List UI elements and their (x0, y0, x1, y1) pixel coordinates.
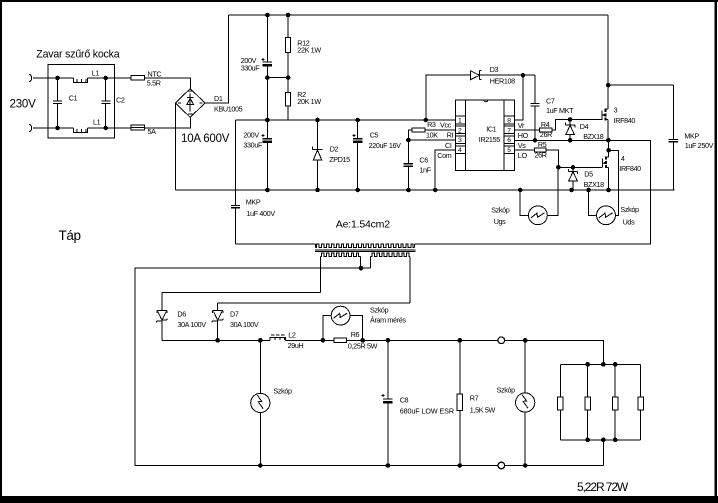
junction: output rail / probe A (258, 338, 263, 343)
svg-text:D3: D3 (490, 65, 499, 74)
svg-text:C7: C7 (546, 96, 555, 105)
inductor L1 (bottom) (73, 117, 100, 132)
scope probe current sense (323, 305, 406, 340)
junction: gate Q4 / probe (556, 165, 561, 170)
svg-text:Szkóp: Szkóp (273, 387, 292, 396)
junction: gate Q3 / D4 (568, 117, 573, 122)
junction: load top (585, 362, 590, 367)
junction: Vs net / D4 (568, 138, 573, 143)
resistor R6 0,25R 5W (334, 330, 378, 350)
svg-text:R7: R7 (470, 394, 479, 403)
wire: winding B to D7 (218, 302, 411, 304)
junction: output rail / probe B (523, 338, 528, 343)
wire: HO to gate Q3 (552, 120, 602, 131)
transformer T1 primary winding (314, 244, 316, 247)
junction: ground rail / Ugs probe (518, 188, 523, 193)
wire: LO to gate Q4 (546, 150, 602, 167)
svg-text:3: 3 (614, 106, 618, 115)
wire: Vs net / half-bridge midpoint (415, 140, 651, 244)
junction: return rail / probe B (523, 463, 528, 468)
connector: mains terminal N (29, 124, 38, 132)
svg-text:29uH: 29uH (288, 341, 304, 350)
svg-text:20K 1W: 20K 1W (297, 97, 321, 106)
capacitor C2 (101, 78, 125, 128)
connector: mains terminal L (29, 74, 38, 82)
svg-text:L2: L2 (288, 330, 296, 339)
svg-text:Uds: Uds (623, 218, 635, 227)
junction: C2 top (103, 76, 108, 81)
junction: ground rail / C chain (265, 188, 270, 193)
svg-text:5: 5 (507, 147, 511, 154)
junction: Vs net / C7 (533, 138, 538, 143)
svg-text:Ugs: Ugs (494, 217, 506, 226)
junction: C1 top (55, 76, 60, 81)
svg-text:Szkóp: Szkóp (620, 205, 639, 214)
wire: +DC bus (top rail) (229, 14, 608, 16)
svg-text:5,22R 72W: 5,22R 72W (577, 480, 629, 494)
capacitor C8 680uF LOW ESR (381, 340, 454, 465)
svg-text:HO: HO (518, 131, 529, 140)
junction: ground rail / D2 (315, 188, 320, 193)
svg-text:680uF LOW ESR: 680uF LOW ESR (400, 406, 454, 415)
svg-text:Vr: Vr (518, 121, 525, 130)
svg-text:C2: C2 (116, 95, 125, 104)
pin labels Vcc RI CI Com (437, 120, 453, 159)
bridge rectifier D1 KBU1005 (176, 89, 243, 145)
resistor R12 22K 1W (286, 15, 322, 78)
transformer T1 core (315, 250, 416, 252)
zener diode D2 ZPD15 (313, 120, 351, 190)
svg-text:1: 1 (458, 118, 462, 125)
capacitor 330uF/200V upper (241, 15, 272, 120)
svg-text:MKP: MKP (246, 197, 261, 206)
transformer T1 secondary winding A (320, 253, 360, 256)
diode D6 30A 100V (156, 293, 206, 341)
svg-text:Szkóp: Szkóp (497, 386, 516, 395)
svg-text:D6: D6 (177, 309, 186, 318)
junction: Vcc line / C5 (355, 118, 360, 123)
svg-text:L1: L1 (93, 117, 101, 126)
junction: output rail / D7 (215, 338, 220, 343)
zener D4 BZX18 (565, 120, 603, 142)
svg-text:30A 100V: 30A 100V (230, 320, 259, 329)
svg-text:IRF840: IRF840 (619, 164, 641, 173)
svg-text:10K: 10K (426, 131, 438, 140)
junction: return rail / C8 (386, 463, 391, 468)
svg-text:D7: D7 (230, 309, 239, 318)
resistor R7 1,5K 5W (457, 340, 495, 465)
scope probe output B (497, 340, 535, 465)
junction: C2 bottom (103, 126, 108, 131)
junction: node A / R2 (286, 75, 291, 80)
junction: ground rail / Q4 source (606, 188, 611, 193)
svg-text:1uF 400V: 1uF 400V (246, 209, 275, 218)
wire: Vcc / midpoint net (236, 119, 456, 121)
junction: Vs net / Q3 source (606, 138, 611, 143)
svg-text:4: 4 (458, 147, 462, 154)
svg-text:26R: 26R (540, 130, 552, 139)
pin numbers 1-4 (458, 118, 462, 155)
svg-text:Vcc: Vcc (440, 120, 452, 129)
wire: divider node A (267, 77, 288, 79)
junction: center tap (359, 266, 364, 271)
wire: bridge positive to top rail (205, 15, 229, 103)
junction: gate Q4 / D5 (571, 165, 576, 170)
junction: ground rail / Uds probe (586, 188, 591, 193)
wire: bridge negative down (175, 103, 177, 190)
wire: pin 3 CT node (408, 139, 455, 141)
junction: ground rail / COM (433, 188, 438, 193)
svg-text:LO: LO (518, 151, 528, 160)
junction: output rail / R7 (458, 338, 463, 343)
svg-text:1uF 250V: 1uF 250V (685, 141, 714, 150)
capacitor MKP 1uF 250V (669, 85, 714, 190)
svg-text:C8: C8 (400, 395, 409, 404)
junction: Vcc line / C chain (265, 118, 270, 123)
svg-text:C5: C5 (370, 131, 379, 140)
fuse 5A (131, 125, 156, 136)
junction: Q3 drain / snubber (606, 83, 611, 88)
junction: C1 bottom (55, 126, 60, 131)
junction: output rail / sense right (360, 338, 365, 343)
capacitor C7 1uF MKT (530, 75, 574, 140)
svg-text:IC1: IC1 (486, 125, 496, 134)
svg-text:D1: D1 (214, 94, 223, 103)
svg-text:D2: D2 (330, 145, 339, 154)
svg-text:7: 7 (507, 127, 511, 134)
inductor L2 29uH (270, 330, 304, 350)
junction: load feed bottom (601, 438, 606, 443)
wire: winding A outer end down (319, 256, 321, 292)
junction: Q4 drain tap (606, 148, 611, 153)
svg-text:8: 8 (507, 118, 511, 125)
transformer T1 secondary winding B (371, 253, 411, 256)
junction: top rail / C chain (265, 13, 270, 18)
capacitor C6 1nF (404, 140, 432, 190)
capacitor C5 220uF 16V (353, 120, 402, 190)
svg-text:MKP: MKP (684, 131, 699, 140)
transistor Q3 IRF840 (upper) (602, 15, 636, 140)
capacitor 330uF/200V lower (243, 120, 272, 190)
wire: winding A to D6 (162, 292, 320, 294)
svg-text:Táp: Táp (59, 228, 81, 243)
svg-text:6: 6 (507, 137, 511, 144)
inductor L1 (top) (73, 69, 99, 83)
junction: output rail / sense left (321, 338, 326, 343)
svg-text:C1: C1 (69, 93, 78, 102)
svg-text:Szkóp: Szkóp (491, 206, 510, 215)
svg-text:5.5R: 5.5R (147, 78, 161, 87)
svg-text:NTC: NTC (148, 70, 162, 79)
svg-text:RI: RI (447, 130, 454, 139)
wire: 0V/COM bus (bottom rail) (176, 189, 675, 191)
svg-text:HER108: HER108 (490, 77, 515, 86)
svg-text:R5: R5 (538, 140, 547, 149)
pin labels Vr HO Vs LO (518, 121, 529, 160)
load resistor bank 5,22R 72W (558, 340, 644, 494)
wire: drain branch to snubber (608, 84, 673, 86)
svg-text:Szkóp: Szkóp (370, 305, 389, 314)
wire: center tap return (left loop) (135, 268, 603, 465)
diode D3 HER108 (426, 65, 535, 120)
svg-text:Com: Com (437, 151, 451, 160)
junction: load bottom (585, 438, 590, 443)
svg-text:C6: C6 (419, 155, 428, 164)
wire: output + rail (162, 340, 603, 364)
zener D5 BZX18 (568, 167, 604, 190)
junction: node A / C chain (265, 75, 270, 80)
scope probe output A (251, 340, 292, 465)
svg-text:IR2155: IR2155 (479, 135, 500, 144)
junction: ground rail / C5 (355, 188, 360, 193)
junction: load bottom (613, 438, 618, 443)
svg-text:Zavar szűrő kocka: Zavar szűrő kocka (36, 49, 119, 61)
junction: output rail / C8 (386, 338, 391, 343)
wire: winding B outer end down (409, 256, 411, 303)
svg-text:D5: D5 (584, 169, 593, 178)
junction: return rail / R7 (458, 463, 463, 468)
svg-text:330uF: 330uF (243, 140, 263, 149)
junction: CT node (406, 138, 411, 143)
svg-text:26R: 26R (535, 150, 547, 159)
svg-text:0,25R 5W: 0,25R 5W (348, 341, 378, 350)
resistor R2 20K 1W (286, 78, 322, 120)
svg-text:Áram mérés: Áram mérés (370, 316, 406, 325)
svg-text:4: 4 (621, 154, 625, 163)
pin numbers 8-5 (507, 118, 511, 155)
junction: top rail / R12 (286, 13, 291, 18)
resistor R4 26R (514, 120, 552, 139)
svg-text:R3: R3 (427, 120, 436, 129)
transistor Q4 IRF840 (lower) (602, 140, 641, 190)
junction: ground rail / C6 (406, 188, 411, 193)
connector: output terminal - (498, 462, 505, 469)
svg-text:ZPD15: ZPD15 (329, 155, 350, 164)
svg-text:IRF840: IRF840 (614, 116, 636, 125)
svg-text:5A: 5A (148, 127, 157, 136)
capacitor C1 (53, 78, 77, 128)
svg-text:2: 2 (458, 127, 462, 134)
junction: Vcc line / D2 (315, 118, 320, 123)
thermistor NTC 5.5R (131, 70, 161, 88)
svg-text:Ae:1.54cm2: Ae:1.54cm2 (336, 219, 390, 231)
svg-text:220uF 16V: 220uF 16V (369, 141, 402, 150)
scope probe Ugs (491, 167, 558, 226)
junction: ground rail / D5 (569, 188, 574, 193)
svg-text:230V: 230V (10, 99, 37, 111)
scope probe Uds (589, 190, 639, 227)
op-amp/driver IC U1 IR2155 (455, 100, 514, 171)
svg-text:Vs: Vs (518, 141, 526, 150)
svg-text:L1: L1 (92, 69, 100, 78)
wire: VB net to pin 8 (514, 75, 522, 120)
svg-text:3: 3 (458, 137, 462, 144)
svg-text:KBU1005: KBU1005 (214, 105, 243, 114)
wire: mains L to bridge (38, 78, 190, 89)
svg-text:1,5K 5W: 1,5K 5W (470, 405, 496, 414)
svg-text:330uF: 330uF (241, 63, 261, 72)
EMI filter box (Zavar szuro kocka) (48, 65, 115, 139)
wire: blocking cap to primary (236, 243, 316, 245)
diode D7 30A 100V (212, 303, 259, 341)
junction: load feed top (601, 362, 606, 367)
wire: Q4 drain tap to Uds probe (609, 150, 619, 215)
svg-text:200V: 200V (243, 131, 259, 140)
resistor R5 26R (514, 140, 546, 159)
connector: output terminal + (498, 337, 505, 344)
svg-text:1nF: 1nF (419, 166, 431, 175)
wire: pin 4 COM to ground rail (435, 150, 455, 190)
junction: Vcc line / D3 branch (424, 118, 429, 123)
capacitor MKP 1uF 400V (231, 120, 276, 244)
resistor R3 10K (408, 120, 455, 140)
svg-text:CI: CI (445, 141, 452, 150)
svg-text:30A 100V: 30A 100V (177, 320, 206, 329)
junction: return rail / probe A (258, 463, 263, 468)
svg-text:10A 600V: 10A 600V (181, 133, 230, 145)
svg-text:R6: R6 (351, 330, 360, 339)
svg-text:R4: R4 (541, 120, 550, 129)
svg-text:D4: D4 (580, 122, 589, 131)
svg-text:1uF MKT: 1uF MKT (546, 106, 574, 115)
svg-text:BZX18: BZX18 (584, 180, 605, 189)
junction: load top (613, 362, 618, 367)
junction: VB net / pin8 branch (521, 73, 526, 78)
wire: mains N to bridge (38, 117, 190, 128)
wire: center tap verticals (360, 256, 370, 268)
svg-text:22K 1W: 22K 1W (297, 46, 321, 55)
